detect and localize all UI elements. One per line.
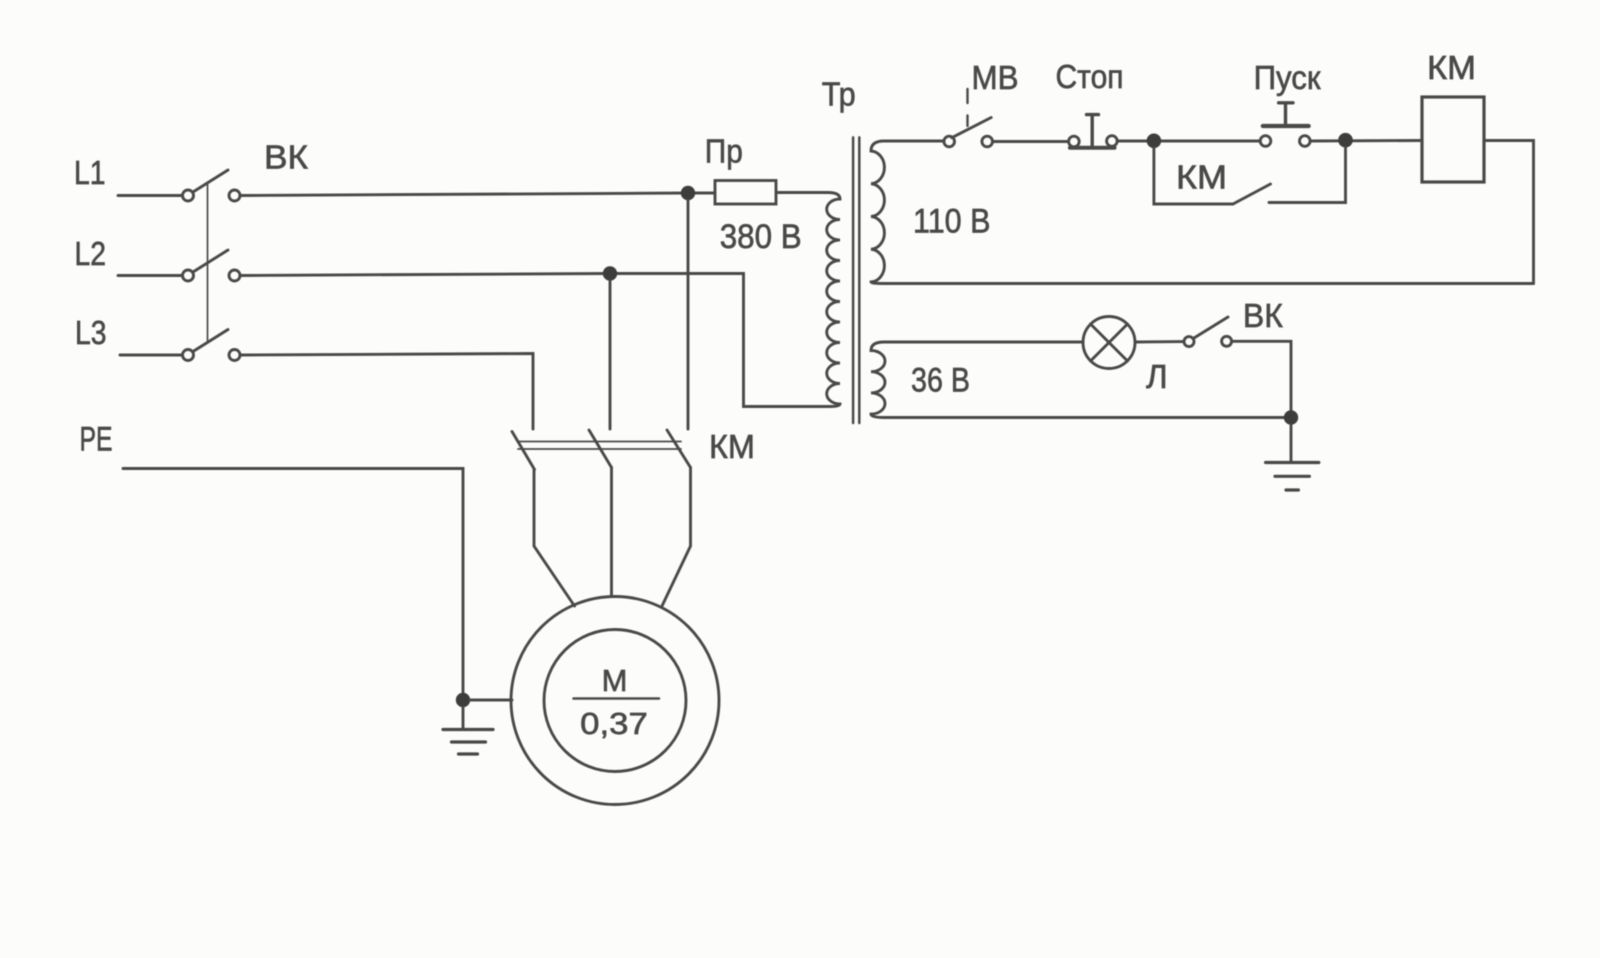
- switch ВК lamp blade: [1194, 317, 1228, 338]
- wire L2 to transformer primary: [241, 274, 831, 407]
- svg-text:М: М: [602, 663, 628, 698]
- svg-text:МВ: МВ: [972, 59, 1019, 96]
- svg-text:110 В: 110 В: [913, 203, 991, 241]
- motor M inner circle: [544, 630, 686, 772]
- svg-text:L1: L1: [74, 154, 106, 191]
- contactor КМ main contact pole 2 blade: [589, 430, 612, 468]
- switch ВК lamp contact a: [1184, 337, 1194, 347]
- motor M outer circle: [511, 597, 719, 805]
- wire L3 to contactor pole 1: [241, 354, 534, 430]
- button Пуск stem: [1284, 104, 1287, 126]
- switch ВК lamp contact b: [1222, 336, 1232, 346]
- button Пуск bridge bar: [1263, 124, 1309, 128]
- button Стоп contact a: [1069, 136, 1080, 147]
- contactor КМ main contact pole 3 lower lead: [662, 468, 691, 607]
- button Стоп contact b: [1107, 136, 1118, 147]
- contactor КМ mechanical link: [518, 441, 681, 443]
- wire junction L2 down to contactor pole 2: [609, 281, 612, 430]
- transformer core: [852, 137, 855, 423]
- switch ВК pole 3 contact b: [229, 350, 240, 361]
- wire L1 to fuse: [241, 193, 716, 196]
- button Пуск contact a: [1260, 136, 1271, 147]
- svg-text:КМ: КМ: [709, 428, 755, 465]
- svg-text:L2: L2: [75, 235, 107, 272]
- junction node L1/contactor: [681, 186, 695, 200]
- svg-text:КМ: КМ: [1427, 49, 1476, 86]
- switch МВ contact b: [982, 136, 993, 147]
- switch МВ blade: [952, 118, 991, 138]
- contact КМ auxiliary branch right: [1269, 148, 1346, 203]
- junction node lamp return: [1284, 410, 1298, 424]
- wire ground stem PE: [462, 707, 465, 729]
- transformer Тр primary winding 380 В: [776, 193, 840, 407]
- switch ВК pole 1 blade: [193, 170, 228, 192]
- switch ВК pole 2 contact a: [183, 270, 194, 281]
- svg-text:380 В: 380 В: [720, 218, 802, 256]
- contact КМ auxiliary self-hold branch left: [1154, 148, 1233, 204]
- transformer secondary winding 110 В: [871, 141, 1534, 284]
- ground (lamp circuit): [1266, 461, 1319, 464]
- button Пуск contact b: [1300, 136, 1311, 147]
- svg-text:PE: PE: [80, 421, 113, 459]
- wire L1 lead-in: [118, 194, 182, 197]
- switch ВК pole 1 contact a: [183, 190, 194, 201]
- svg-text:Пр: Пр: [705, 133, 743, 170]
- switch ВК pole 1 contact b: [229, 190, 240, 201]
- wire МВ to Стоп: [993, 140, 1069, 143]
- fuse Пр: [715, 181, 776, 205]
- svg-text:КМ: КМ: [1176, 159, 1227, 196]
- wire ground stem lamp circuit: [1290, 425, 1293, 462]
- junction node PE/motor: [456, 693, 470, 707]
- switch ВК pole 3 contact a: [183, 350, 194, 361]
- junction node aux branch right: [1338, 133, 1353, 148]
- motor fraction line: [574, 697, 660, 700]
- contactor КМ main contact pole 3 blade: [667, 430, 691, 468]
- transformer secondary winding 36 В: [871, 342, 1291, 418]
- wire lamp to ВК2: [1135, 340, 1184, 343]
- button Стоп stem: [1090, 115, 1093, 147]
- switch ВК pole 3 blade: [193, 330, 228, 352]
- svg-text:Стоп: Стоп: [1056, 58, 1124, 95]
- button Стоп cap: [1087, 113, 1099, 116]
- wire L3 lead-in: [120, 354, 182, 357]
- wire ВК2 to ground node: [1232, 341, 1291, 417]
- contactor КМ main contact pole 2 lower lead: [610, 468, 613, 597]
- contact КМ auxiliary blade: [1233, 184, 1271, 204]
- switch ВК mechanical link: [207, 183, 209, 342]
- svg-text:Тр: Тр: [822, 76, 856, 113]
- lamp Л: [1083, 317, 1135, 369]
- wire junction L1 down to contactor pole 3: [687, 200, 690, 429]
- svg-text:Пуск: Пуск: [1254, 59, 1322, 96]
- switch МВ contact a: [944, 136, 955, 147]
- button Пуск cap: [1279, 101, 1293, 104]
- wire L2 lead-in: [118, 274, 182, 277]
- wire КМ coil to return: [1484, 141, 1534, 284]
- svg-text:ВК: ВК: [1243, 297, 1284, 334]
- contactor КМ main contact pole 1 blade: [512, 432, 535, 470]
- wire PE to motor frame: [470, 699, 512, 702]
- svg-text:0,37: 0,37: [580, 706, 648, 741]
- ground (PE): [443, 728, 493, 731]
- wire PE: [123, 469, 463, 701]
- contactor coil КМ: [1422, 97, 1484, 182]
- svg-text:36 В: 36 В: [911, 362, 970, 400]
- wire Пуск to КМ coil: [1310, 139, 1422, 142]
- svg-text:Л: Л: [1146, 358, 1168, 395]
- junction node aux branch left: [1147, 134, 1162, 149]
- contactor КМ main contact pole 1 lower lead: [534, 470, 575, 607]
- button Стоп bridge bar: [1070, 146, 1115, 150]
- switch ВК pole 2 contact b: [229, 270, 240, 281]
- wire Стоп to Пуск: [1117, 140, 1260, 143]
- switch МВ dashed actuator link: [966, 89, 968, 103]
- svg-text:ВК: ВК: [264, 139, 309, 176]
- switch ВК pole 2 blade: [193, 250, 228, 272]
- svg-text:L3: L3: [75, 314, 107, 351]
- junction node L2/contactor: [603, 266, 617, 280]
